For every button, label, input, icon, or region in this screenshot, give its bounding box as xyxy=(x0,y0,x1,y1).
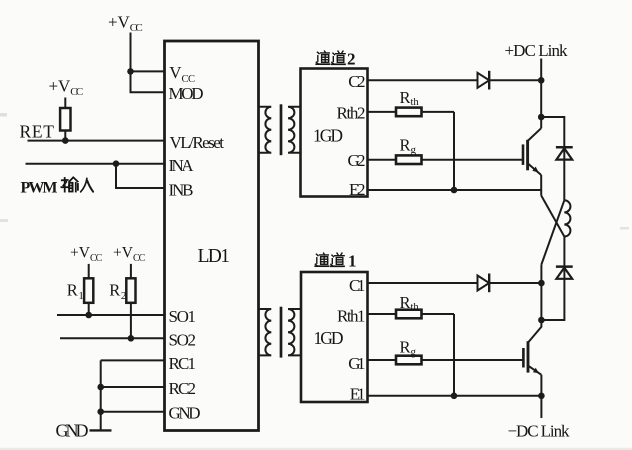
wire Rth2 pin xyxy=(368,111,397,113)
Q2 gate bar xyxy=(522,348,525,368)
svg-text:G1: G1 xyxy=(348,354,365,373)
svg-text:−DC Link: −DC Link xyxy=(508,421,571,440)
wire RC2 line xyxy=(101,386,165,388)
svg-text:+DC Link: +DC Link xyxy=(505,41,569,60)
wire Rth2 to vertical xyxy=(422,111,455,113)
wire G1 pin xyxy=(368,359,397,361)
svg-text:1GD: 1GD xyxy=(314,328,344,348)
svg-text:PWM: PWM xyxy=(21,179,58,196)
inductor L1 coil xyxy=(564,200,570,236)
resistor R1 xyxy=(84,278,93,303)
wire RET line xyxy=(28,140,165,142)
svg-text:E2: E2 xyxy=(349,180,366,199)
ch1 pin labels xyxy=(337,276,366,404)
Q1 emitter xyxy=(528,163,542,175)
wire Q1 emitter lead xyxy=(540,175,542,190)
resistor R2 xyxy=(126,278,135,303)
wire INA line xyxy=(26,163,165,165)
transformer T2 core xyxy=(280,104,283,155)
node mid junction xyxy=(538,317,545,324)
svg-text:1: 1 xyxy=(348,252,357,271)
node Vcc junction xyxy=(127,68,134,75)
svg-text:GND: GND xyxy=(169,404,201,423)
node diode branch junction xyxy=(538,114,545,121)
wire G2 pin xyxy=(368,159,397,161)
Rth label ch2 xyxy=(400,88,420,108)
transistor Q2 (lower IGBT) collector xyxy=(528,320,541,343)
wire to VCC pin xyxy=(131,70,165,72)
resistor Rg (ch2) xyxy=(396,155,422,164)
1GD label ch1 xyxy=(314,328,344,348)
wire E2 line xyxy=(368,189,542,191)
wire C2 line xyxy=(368,79,478,81)
Q2 emitter xyxy=(528,366,541,375)
svg-text:SO1: SO1 xyxy=(169,307,197,326)
+Vcc supply label (top) xyxy=(108,13,143,35)
wire E2 down to crossing xyxy=(540,190,542,196)
IC U1 LD1 box xyxy=(165,41,259,431)
svg-text:+VCC: +VCC xyxy=(113,245,146,264)
svg-text:+VCC: +VCC xyxy=(49,77,84,99)
resistor R-RET xyxy=(60,108,70,131)
svg-text:Rth1: Rth1 xyxy=(337,307,366,326)
svg-text:RC1: RC1 xyxy=(169,354,197,373)
svg-text:1GD: 1GD xyxy=(313,126,343,146)
wire E1 line xyxy=(368,395,542,397)
node RET junction xyxy=(62,137,69,144)
node C1 junction xyxy=(538,280,545,287)
Rth label ch1 xyxy=(400,293,420,313)
wire SO2 line xyxy=(60,337,165,339)
wire Rth1 to vertical xyxy=(422,313,455,315)
svg-text:RET: RET xyxy=(20,122,55,142)
transformer T1 right winding xyxy=(288,309,301,355)
wire -DC lead xyxy=(540,396,542,418)
transistor Q1 (upper IGBT) collector xyxy=(528,128,542,141)
node E1 emitter junction xyxy=(538,393,545,400)
node INA junction xyxy=(113,160,120,167)
svg-text:C1: C1 xyxy=(349,276,366,295)
wire INB link xyxy=(116,164,165,188)
driver block U2 1GD channel 2 xyxy=(301,69,368,197)
svg-text:RC2: RC2 xyxy=(169,379,197,398)
+Vcc supply label (RET pull-up) xyxy=(49,77,84,99)
wire to MOD pin xyxy=(131,71,165,92)
wire resistor to RET line xyxy=(64,131,66,141)
svg-text:Rth: Rth xyxy=(400,293,420,313)
svg-text:INB: INB xyxy=(169,180,194,199)
svg-text:C2: C2 xyxy=(348,72,365,91)
wire Vcc to R1 xyxy=(88,264,90,278)
svg-text:GND: GND xyxy=(56,421,89,441)
diode D3 (upper freewheel) xyxy=(556,146,573,149)
svg-text:INA: INA xyxy=(169,156,195,175)
Q1 emitter arrow xyxy=(532,167,539,173)
Rg label ch1 xyxy=(400,338,417,359)
resistor Rth (ch2) xyxy=(396,108,422,117)
wire R1 to SO1 xyxy=(88,303,90,315)
svg-text:VL/Reset: VL/Reset xyxy=(170,133,225,152)
scan artifact left 1 xyxy=(0,113,7,117)
wire Vcc to R2 xyxy=(130,264,132,278)
+Vcc supply label (R2) xyxy=(113,245,146,264)
wire crossing diagonal A xyxy=(541,196,564,237)
ground xyxy=(90,429,112,431)
svg-text:+VCC: +VCC xyxy=(70,245,103,264)
resistor Rg (ch1) xyxy=(396,356,422,365)
channel 2 caption (tong dao 2) xyxy=(316,51,329,64)
diode D2 (C2 series) xyxy=(478,73,490,88)
Q1 gate bar xyxy=(522,144,525,165)
channel 1 caption (tong dao 1) xyxy=(315,253,328,266)
svg-text:R1: R1 xyxy=(67,281,84,303)
wire Q2 emitter lead xyxy=(540,375,542,396)
svg-text:MOD: MOD xyxy=(169,84,204,103)
wire crossing diagonal B xyxy=(541,200,564,264)
R2 label xyxy=(109,281,126,303)
wire RC1 line xyxy=(101,359,165,361)
wire vertical Rth1-E1 xyxy=(453,314,455,396)
node RC2 junction xyxy=(97,384,104,391)
transformer T2 left winding xyxy=(259,107,271,153)
resistor Rth (ch1) xyxy=(396,310,422,319)
wire down to ground xyxy=(100,360,102,430)
transformer T2 right winding xyxy=(288,107,301,153)
LD1 label xyxy=(198,246,231,267)
RET label xyxy=(20,122,55,142)
node SO1 junction xyxy=(85,312,92,319)
node C2 / +DC junction xyxy=(538,77,545,84)
node GND junction xyxy=(97,408,104,415)
Rg label ch2 xyxy=(400,136,417,157)
svg-text:SO2: SO2 xyxy=(169,330,197,349)
wire +Vcc down to Vcc pin xyxy=(130,33,132,72)
transformer T1 core xyxy=(280,307,283,358)
wire D4 to junction xyxy=(541,237,564,320)
node E2 junction xyxy=(451,187,458,194)
1GD label ch2 xyxy=(313,126,343,146)
svg-text:E1: E1 xyxy=(350,385,366,404)
Q1 body bar xyxy=(526,140,529,171)
svg-text:Rg: Rg xyxy=(400,338,417,359)
svg-text:LD1: LD1 xyxy=(198,246,231,267)
wire GND pin line xyxy=(101,411,165,413)
ch2 pin labels xyxy=(337,72,366,199)
wire diode to +DC xyxy=(489,79,541,81)
driver block U3 1GD channel 1 xyxy=(301,272,368,402)
node E1 junction xyxy=(451,393,458,400)
wire C1 line xyxy=(368,282,478,284)
wire R2 to SO2 xyxy=(130,303,132,339)
wire branch to freewheel diode D3 xyxy=(541,117,564,200)
svg-text:+VCC: +VCC xyxy=(108,13,143,35)
wire vertical Rth2-E2 xyxy=(453,112,455,190)
-DC Link label xyxy=(508,421,571,440)
scan artifact bottom band xyxy=(0,448,632,450)
wire Rth1 pin xyxy=(368,313,397,315)
svg-text:Rth2: Rth2 xyxy=(337,103,366,122)
+DC Link label xyxy=(505,41,569,60)
svg-text:Rth: Rth xyxy=(400,88,420,108)
wire diode to junction xyxy=(489,282,541,284)
LD1 pin labels xyxy=(169,63,225,423)
wire +DC Link vertical xyxy=(540,59,542,129)
wire down to C1 junction xyxy=(540,265,542,321)
transformer T1 left winding xyxy=(259,309,271,355)
diode D4 (lower freewheel) xyxy=(556,265,573,268)
wire G1 to Q2 gate xyxy=(422,359,524,361)
PWM input label xyxy=(21,179,58,196)
svg-text:Rg: Rg xyxy=(400,136,417,157)
svg-text:G2: G2 xyxy=(348,151,366,170)
svg-text:2: 2 xyxy=(347,50,356,69)
GND label xyxy=(56,421,89,441)
wire SO1 line xyxy=(57,314,165,316)
+Vcc supply label (R1) xyxy=(70,245,103,264)
wire G2 to Q1 gate xyxy=(422,159,524,161)
diode D1 (C1 series) xyxy=(478,276,490,291)
svg-text:VCC: VCC xyxy=(169,63,195,85)
CJK shu-ru (input) xyxy=(61,178,78,192)
R1 label xyxy=(67,281,84,303)
node SO2 junction xyxy=(128,335,135,342)
svg-text:R2: R2 xyxy=(109,281,126,303)
scan artifact left 2 xyxy=(0,219,8,222)
Q2 body bar xyxy=(527,341,530,372)
Q2 emitter arrow xyxy=(533,368,539,374)
wire Vcc to resistor xyxy=(64,98,66,109)
scan artifact right xyxy=(620,227,629,230)
